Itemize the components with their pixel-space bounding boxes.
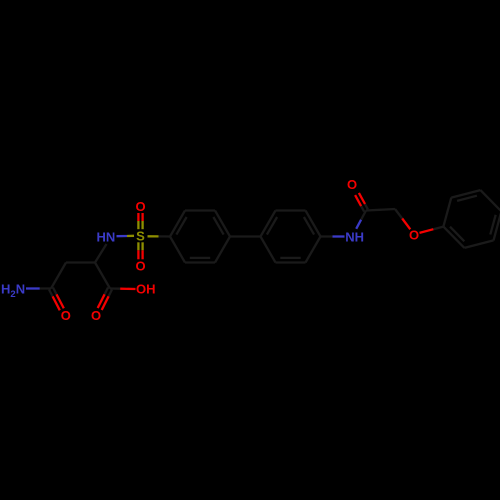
wire C-C bond	[95, 263, 110, 289]
wire C-C bond	[366, 209, 395, 211]
wire C=O double bond of acid	[105, 288, 108, 295]
benzene ring 1	[170, 211, 185, 237]
wire S=O double bond (lower)	[141, 242, 143, 250]
wire S=O double bond (upper)	[141, 221, 143, 229]
benzene ring 3 (phenoxy)	[443, 198, 451, 227]
wire C-C bond	[66, 261, 95, 263]
wire C-O ether bond	[395, 209, 402, 219]
wire biphenyl C-C bond	[230, 235, 261, 237]
svg-text:HN: HN	[97, 229, 116, 244]
svg-text:O: O	[91, 308, 101, 323]
svg-text:O: O	[409, 227, 419, 242]
wire N-C bond to carbonyl	[356, 220, 361, 229]
svg-text:OH: OH	[136, 282, 156, 297]
wire C=O double bond of phenoxyacetamide	[365, 204, 368, 209]
wire C-N bond	[95, 244, 107, 263]
wire C-OH bond	[110, 287, 120, 290]
svg-text:O: O	[135, 259, 145, 274]
wire C=O double bond of amide	[49, 290, 53, 297]
wire C-N bond to NH	[321, 235, 333, 237]
wire N-S bond	[117, 235, 128, 237]
svg-text:O: O	[347, 177, 357, 192]
wire C-C bond	[51, 263, 66, 289]
wire S-C bond to ring	[148, 235, 159, 237]
svg-text:O: O	[135, 199, 145, 214]
wire N-C bond of amide	[26, 287, 40, 289]
wire O-C ether bond to phenyl	[420, 229, 434, 233]
benzene ring 2	[261, 211, 276, 237]
svg-text:S: S	[136, 228, 145, 243]
svg-text:O: O	[61, 308, 71, 323]
svg-text:NH: NH	[345, 229, 364, 244]
